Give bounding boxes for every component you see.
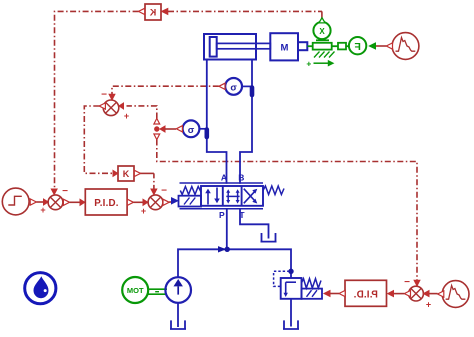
svg-text:+: + bbox=[426, 300, 431, 310]
displacement arrow (+ right) bbox=[306, 58, 333, 68]
relief valve spring bbox=[302, 279, 322, 288]
wire: pump outlet line with junction to relief valve bbox=[178, 247, 294, 278]
wire: valve port P down to pump junction bbox=[226, 209, 228, 249]
svg-text:−: − bbox=[101, 90, 107, 101]
svg-text:P.I.D.: P.I.D. bbox=[353, 289, 378, 300]
svg-text:M: M bbox=[281, 43, 289, 54]
svg-text:+: + bbox=[141, 206, 146, 216]
svg-text:A: A bbox=[221, 173, 227, 183]
valve port labels bbox=[219, 173, 245, 221]
relief valve body bbox=[281, 278, 302, 299]
svg-text:σ: σ bbox=[230, 83, 237, 94]
wire: branch node B1 down and right to right summing node S4 bbox=[157, 140, 417, 286]
svg-text:P: P bbox=[219, 210, 225, 220]
valve cell 1 arrows (parallel) bbox=[205, 188, 220, 205]
wire: valve port T to tank T3 bbox=[240, 209, 269, 233]
svg-text:K: K bbox=[149, 8, 156, 18]
svg-text:−: − bbox=[404, 277, 410, 288]
svg-text:F: F bbox=[354, 41, 361, 53]
wire: pressure transducer G1 output to summing node S3 bbox=[112, 86, 219, 94]
ground hatch under X sensor bbox=[314, 52, 335, 58]
valve proportional solenoid (left) bbox=[179, 196, 202, 207]
svg-text:−: − bbox=[62, 186, 68, 197]
svg-text:+: + bbox=[306, 58, 311, 68]
valve right spring bbox=[263, 186, 284, 195]
wire: relief valve outlet to tank T2 bbox=[290, 299, 292, 327]
connector: green arrow into force sensor F bbox=[369, 43, 375, 49]
shaft MOT-pump bbox=[148, 289, 167, 294]
svg-text:T: T bbox=[239, 210, 245, 220]
svg-text:+: + bbox=[40, 205, 45, 215]
connector: S4 output to PID2 bbox=[388, 291, 411, 297]
wire: summing node S3 output loop down to gain K2 bbox=[84, 106, 112, 173]
wire: cylinder right port line to valve port B bbox=[240, 61, 252, 184]
svg-text:K: K bbox=[123, 169, 130, 179]
svg-text:−: − bbox=[161, 186, 167, 197]
relief valve proportional solenoid bbox=[302, 289, 323, 299]
wire: cylinder left port line to valve port A bbox=[207, 61, 227, 184]
svg-text:X: X bbox=[319, 27, 325, 36]
connector: S2 output to valve solenoid (red to blue) bbox=[163, 198, 178, 206]
connector: PID2 output to relief valve solenoid bbox=[324, 290, 345, 296]
svg-text:MOT: MOT bbox=[127, 286, 144, 295]
valve cell 2 (blocked centre) bbox=[226, 189, 239, 203]
valve left spring bbox=[180, 187, 201, 195]
pilot dashed line bbox=[274, 271, 290, 286]
wire: branch node B1 up to S3 plus input bbox=[127, 106, 157, 119]
connector: S1 output arrow to PID1 bbox=[63, 199, 84, 205]
svg-text:σ: σ bbox=[188, 125, 195, 136]
connector: PID1 output arrow to S2 bbox=[127, 199, 148, 205]
connector: SG1 output arrow to S1 bbox=[30, 199, 48, 205]
svg-text:P.I.D.: P.I.D. bbox=[94, 198, 119, 209]
svg-text:+: + bbox=[124, 111, 129, 121]
svg-text:B: B bbox=[238, 173, 244, 183]
wire: pump drain to tank T1 bbox=[177, 304, 179, 328]
wire: K2 output to summing node S2 bbox=[139, 173, 154, 188]
wire: feedback line from X sensor to gain K1 (top) bbox=[168, 11, 322, 18]
wire: K1 output left and down to summing node S1 bbox=[55, 11, 139, 188]
valve cell 3 arrows (crossed) bbox=[244, 189, 257, 204]
